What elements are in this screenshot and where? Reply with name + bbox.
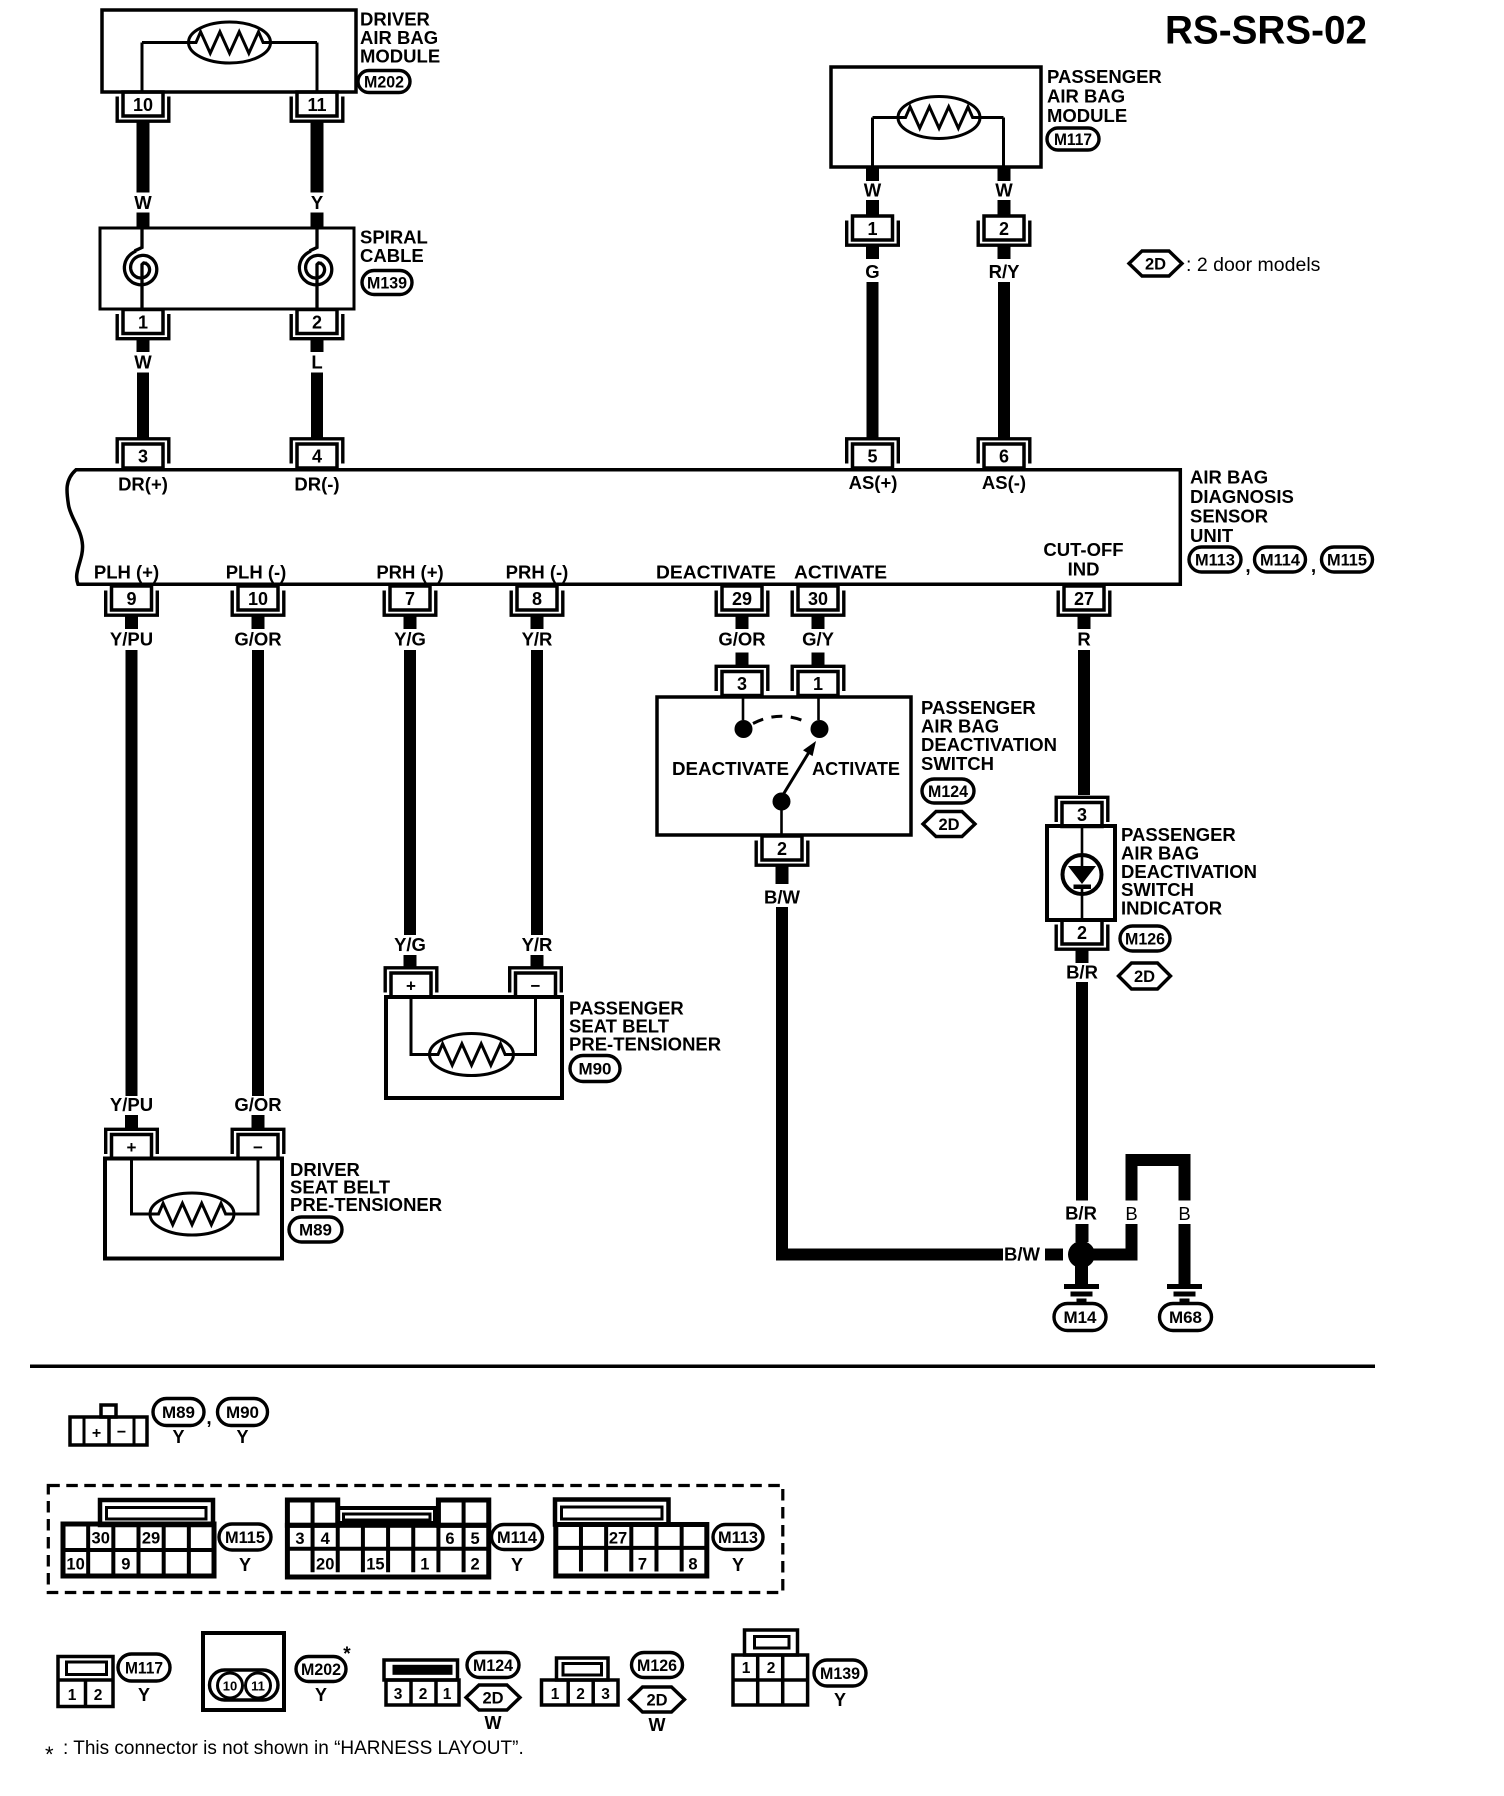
svg-text:7: 7	[405, 589, 415, 609]
svg-text:R/Y: R/Y	[989, 261, 1021, 282]
footnote asterisk	[45, 1742, 54, 1767]
svg-text:+: +	[406, 977, 416, 996]
svg-text:M202: M202	[364, 73, 404, 91]
wire stub below pin (R)	[1078, 615, 1091, 629]
svg-text:2: 2	[312, 313, 322, 333]
sensor pin name PLH (-)	[226, 562, 287, 583]
wire color label W (passenger right)	[995, 180, 1013, 201]
svg-text:B/R: B/R	[1065, 1203, 1097, 1224]
switch dashed travel arc	[753, 716, 809, 723]
svg-text:R: R	[1077, 629, 1090, 650]
connector label M114	[1255, 547, 1306, 572]
switch lever arrow	[784, 741, 817, 794]
svg-text:5: 5	[471, 1530, 480, 1548]
switch contact dot ACTIVATE	[811, 720, 829, 738]
svg-text:10: 10	[66, 1556, 84, 1574]
wire color label Y/R (upper)	[522, 629, 553, 650]
connector pin 1 (M124)	[792, 666, 844, 695]
svg-text:2: 2	[999, 219, 1009, 239]
connector pin 1 (M139 lower)	[117, 310, 169, 339]
squib resistor (passenger pre-tensioner)	[430, 1034, 514, 1076]
wire B/W junction down stub	[1075, 1266, 1088, 1284]
indicator lamp anode lead	[1081, 828, 1084, 866]
wire R/Y run to pin 6	[998, 282, 1010, 440]
connector label M117	[1047, 128, 1099, 150]
svg-text:DEACTIVATE: DEACTIVATE	[672, 758, 789, 779]
svg-text:M90: M90	[579, 1060, 612, 1078]
svg-text:6: 6	[999, 447, 1009, 467]
sensor pin name AS(-)	[982, 472, 1026, 493]
svg-text:6: 6	[445, 1530, 454, 1548]
sensor pin name CUT-OFF IND	[1043, 539, 1123, 580]
indicator label text	[1121, 824, 1257, 919]
connector label M114 (face view)	[492, 1525, 543, 1550]
svg-text:Y: Y	[172, 1427, 184, 1447]
svg-text:M89: M89	[162, 1404, 195, 1422]
wire Y stub into spiral cable	[311, 213, 324, 230]
svg-text:M68: M68	[1169, 1309, 1202, 1327]
sensor pin name DR(+)	[118, 474, 168, 495]
connector label M113	[1189, 547, 1241, 572]
wire stub below pin (Y/PU)	[125, 615, 138, 629]
svg-text:SWITCH: SWITCH	[921, 753, 994, 774]
svg-text:SENSOR: SENSOR	[1190, 506, 1268, 527]
svg-text:3: 3	[1077, 805, 1087, 825]
svg-text:3: 3	[138, 447, 148, 467]
internal lead wires (passenger module)	[873, 118, 1004, 168]
svg-text:1: 1	[443, 1686, 452, 1703]
svg-text:4: 4	[312, 447, 322, 467]
wire color label B (right)	[1178, 1203, 1190, 1224]
wire R/Y stub below pin 2	[998, 245, 1011, 259]
connector pin 9 (sensor bottom)	[106, 586, 158, 615]
wire color label G/OR (upper)	[718, 629, 765, 650]
wire color label G/OR (lower)	[234, 1094, 281, 1115]
svg-text:CUT-OFF: CUT-OFF	[1043, 539, 1123, 560]
svg-text:Y/G: Y/G	[394, 629, 426, 650]
connector label M115 (face view)	[219, 1524, 271, 1550]
svg-text:PASSENGER: PASSENGER	[1047, 66, 1162, 87]
sensor pin name PRH (+)	[376, 562, 443, 583]
svg-text:M115: M115	[1327, 551, 1367, 569]
svg-text:30: 30	[808, 589, 828, 609]
svg-text:Y: Y	[732, 1555, 744, 1575]
driver module label text	[360, 9, 440, 67]
connector face view M202	[203, 1633, 284, 1710]
wire Y/R stub to - connector	[531, 955, 544, 968]
color code Y (M114)	[511, 1555, 523, 1575]
svg-text:1: 1	[68, 1687, 77, 1704]
svg-text:3: 3	[295, 1530, 304, 1548]
svg-text:M113: M113	[1195, 551, 1235, 569]
svg-text:B/R: B/R	[1066, 962, 1098, 983]
svg-text:8: 8	[688, 1556, 697, 1574]
switch contact lead pin3	[742, 697, 745, 720]
svg-text:−: −	[253, 1138, 263, 1157]
condition symbol 2D (indicator)	[1119, 963, 1171, 989]
color code W (M126)	[649, 1715, 666, 1735]
wire B bridge top	[1126, 1154, 1191, 1166]
passenger air bag deactivation switch indicator M126 body	[1047, 826, 1115, 920]
svg-text:M126: M126	[637, 1657, 677, 1675]
svg-text:29: 29	[142, 1530, 160, 1548]
separator line	[30, 1365, 1375, 1369]
condition symbol 2D (M126 face view)	[630, 1687, 685, 1712]
svg-text:1: 1	[138, 313, 148, 333]
svg-text:15: 15	[366, 1556, 384, 1574]
svg-text:MODULE: MODULE	[1047, 105, 1127, 126]
svg-text:PRE-TENSIONER: PRE-TENSIONER	[290, 1194, 442, 1215]
squib resistor (driver pre-tensioner)	[150, 1193, 234, 1235]
svg-text:2: 2	[767, 1660, 776, 1677]
svg-text:: 2 door models: : 2 door models	[1186, 254, 1321, 276]
svg-text:W: W	[485, 1713, 502, 1733]
sensor pin name AS(+)	[849, 472, 898, 493]
wire stub below pin (G/OR)	[252, 615, 265, 629]
svg-text:3: 3	[737, 674, 747, 694]
svg-text:11: 11	[251, 1679, 265, 1694]
wire Y/R run (pin8 to passenger pre-tensioner)	[531, 650, 543, 935]
connector pin 3 (M124)	[716, 666, 768, 695]
sensor pin name ACTIVATE	[794, 562, 887, 583]
svg-text:2: 2	[471, 1556, 480, 1574]
svg-text:1: 1	[420, 1556, 429, 1574]
wire color label W (passenger left)	[864, 180, 882, 201]
svg-text:*: *	[343, 1644, 351, 1665]
svg-text:G: G	[865, 261, 879, 282]
wire B/R stub below pin 2	[1076, 949, 1089, 963]
wire color label G/OR (upper)	[234, 629, 281, 650]
svg-text:Y/R: Y/R	[522, 934, 553, 955]
svg-text:AIR BAG: AIR BAG	[1190, 467, 1268, 488]
wire B/W stub below pin 2	[776, 865, 789, 884]
svg-text:PRE-TENSIONER: PRE-TENSIONER	[569, 1034, 721, 1055]
connector + (M90)	[385, 968, 437, 997]
comma separator 3	[206, 1408, 211, 1429]
connector face view M89/M90 (2-pin)	[70, 1405, 147, 1445]
legend text 2 door models	[1186, 254, 1321, 276]
svg-text:M124: M124	[928, 783, 969, 801]
wire B left leg gap note	[0, 0, 1, 1]
connector + (M89)	[106, 1129, 158, 1158]
connector pin 8 (sensor bottom)	[511, 586, 563, 615]
wire G/OR run (pin10 to driver pre-tensioner)	[252, 650, 264, 1096]
ground label M14	[1054, 1304, 1106, 1331]
asterisk (M202 not in harness layout)	[343, 1644, 351, 1665]
connector face view M139	[733, 1630, 808, 1705]
connector pin 30 (sensor bottom)	[792, 586, 844, 615]
wire Y/PU run (pin9 to driver pre-tensioner)	[126, 650, 138, 1096]
wire color label R (upper)	[1077, 629, 1090, 650]
svg-text:G/OR: G/OR	[234, 629, 281, 650]
sensor pin name DEACTIVATE	[656, 562, 776, 583]
svg-text:9: 9	[126, 589, 136, 609]
wire color label B (left)	[1125, 1203, 1137, 1224]
switch label text	[921, 697, 1057, 774]
connector pin 10 (M202)	[117, 92, 169, 121]
internal leads (passenger pre-tensioner)	[411, 997, 536, 1055]
svg-text:4: 4	[321, 1530, 331, 1548]
svg-text:PRH (+): PRH (+)	[376, 562, 443, 583]
connector - (M90)	[510, 968, 562, 997]
svg-text:: This connector is not shown: : This connector is not shown in “HARNES…	[63, 1738, 524, 1759]
wire color label W (spiral-sensor)	[134, 352, 152, 373]
svg-text:Y/R: Y/R	[522, 629, 553, 650]
svg-text:RS-SRS-02: RS-SRS-02	[1165, 9, 1367, 53]
ground symbol M68	[1167, 1284, 1202, 1304]
wire B left leg lower stub	[1126, 1224, 1138, 1255]
color code Y (M117)	[138, 1685, 150, 1705]
sensor pin name PRH (-)	[506, 562, 569, 583]
connector label M117 (face view)	[118, 1654, 170, 1681]
svg-text:27: 27	[1074, 589, 1094, 609]
connector label M139	[362, 271, 412, 295]
color code Y (M90)	[236, 1427, 248, 1447]
svg-text:9: 9	[121, 1556, 130, 1574]
indicator lamp circle	[1063, 855, 1102, 894]
wire color label Y/G (lower)	[394, 934, 426, 955]
connector pin 2 (M126)	[1056, 920, 1108, 949]
squib resistor (passenger air bag module)	[873, 97, 1004, 139]
svg-text:30: 30	[92, 1530, 110, 1548]
svg-text:W: W	[995, 180, 1013, 201]
connector pin 2 (M124)	[756, 836, 808, 865]
internal lead wires (driver module)	[142, 43, 317, 93]
connector pin 29 (sensor bottom)	[716, 586, 768, 615]
svg-text:Y: Y	[236, 1427, 248, 1447]
svg-text:27: 27	[609, 1530, 627, 1548]
svg-text:,: ,	[1245, 556, 1250, 577]
svg-text:2D: 2D	[1134, 968, 1155, 986]
connector pin 1 (M117)	[847, 216, 899, 245]
svg-text:M114: M114	[497, 1529, 538, 1547]
wire color label W (pin10-spiral)	[134, 192, 152, 213]
wire B/W stub to junction	[1045, 1249, 1063, 1261]
indicator lamp cathode lead	[1081, 889, 1084, 918]
svg-text:DR(-): DR(-)	[294, 474, 339, 495]
wire B/R run down	[1076, 982, 1088, 1201]
wire stub below pin (Y/G)	[404, 615, 417, 629]
switch contact dot DEACTIVATE	[735, 720, 753, 738]
connector label M202	[358, 71, 410, 93]
wire W run to pin 3	[137, 373, 149, 440]
color code W (M124)	[485, 1713, 502, 1733]
svg-text:M202: M202	[301, 1661, 341, 1679]
svg-text:+: +	[127, 1138, 137, 1157]
wire color label Y (pin11-spiral)	[311, 192, 324, 213]
wire color label B/W (at junction)	[1004, 1244, 1041, 1265]
footnote text	[63, 1738, 524, 1759]
svg-text:3: 3	[394, 1686, 403, 1703]
wire from junction to right	[1093, 1249, 1138, 1261]
connector label M89	[289, 1217, 342, 1242]
wire color label B/R (lower)	[1065, 1203, 1097, 1224]
svg-text:G/Y: G/Y	[802, 629, 835, 650]
wire color label B/R (upper)	[1066, 962, 1098, 983]
connector label M139 (face view)	[814, 1660, 866, 1686]
dashed group box (sensor connectors)	[48, 1486, 783, 1593]
svg-text:2: 2	[419, 1686, 428, 1703]
spiral coil symbol left (M139)	[124, 230, 156, 308]
svg-text:W: W	[134, 352, 152, 373]
connector label M89 (face view)	[153, 1399, 204, 1426]
connector pin 7 (sensor bottom)	[384, 586, 436, 615]
svg-text:B/W: B/W	[764, 887, 801, 908]
wire B/W horizontal run	[776, 1249, 1003, 1261]
passenger air bag module M117 body	[831, 67, 1041, 167]
wire W stub below pin 10	[137, 121, 150, 192]
svg-text:M126: M126	[1125, 930, 1165, 948]
svg-text:Y: Y	[239, 1555, 251, 1575]
wire color label G/Y (upper)	[802, 629, 835, 650]
svg-text:Y: Y	[511, 1555, 523, 1575]
connector label M126	[1120, 926, 1170, 951]
connector face view M114	[287, 1500, 488, 1577]
connector pin 5 (sensor unit top)	[847, 439, 899, 468]
connector pin 3 (sensor unit top)	[117, 439, 169, 468]
svg-text:M117: M117	[125, 1659, 163, 1677]
connector - (M89)	[232, 1129, 284, 1158]
indicator lamp cathode bar	[1074, 885, 1092, 890]
wire color label L (spiral-sensor)	[311, 352, 322, 373]
comma separator 1	[1245, 556, 1250, 577]
svg-text:AIR BAG: AIR BAG	[1047, 85, 1125, 106]
color code Y (M89)	[172, 1427, 184, 1447]
svg-text:1: 1	[813, 674, 823, 694]
svg-text:10: 10	[133, 95, 153, 115]
svg-text:B: B	[1178, 1203, 1190, 1224]
svg-text:20: 20	[316, 1556, 334, 1574]
wire G run to pin 5	[867, 282, 879, 440]
comma separator 2	[1311, 556, 1316, 577]
wire stub below pin (G/OR)	[736, 615, 749, 629]
air bag diagnosis sensor unit body (M113/M114/M115)	[67, 470, 1180, 585]
svg-text:M113: M113	[718, 1529, 758, 1547]
svg-text:1: 1	[867, 219, 877, 239]
svg-text:M124: M124	[473, 1657, 514, 1675]
svg-text:M117: M117	[1054, 131, 1092, 149]
wire G/OR stub to - connector	[252, 1115, 265, 1129]
switch common contact dot	[773, 793, 791, 811]
wire stub below pin (G/Y)	[812, 615, 825, 629]
svg-text:DIAGNOSIS: DIAGNOSIS	[1190, 486, 1294, 507]
connector pin 10 (sensor bottom)	[232, 586, 284, 615]
wire color label Y/R (lower)	[522, 934, 553, 955]
connector pin 11 (M202)	[291, 92, 343, 121]
svg-text:+: +	[92, 1425, 101, 1442]
svg-text:10: 10	[223, 1679, 237, 1694]
svg-text:W: W	[649, 1715, 666, 1735]
svg-text:W: W	[134, 192, 152, 213]
connector pin 27 (sensor bottom)	[1058, 586, 1110, 615]
wire Y stub below pin 11	[311, 121, 324, 192]
color code Y (M139)	[834, 1690, 846, 1710]
wire B right leg lower	[1179, 1224, 1191, 1284]
svg-text:DR(+): DR(+)	[118, 474, 168, 495]
svg-text:Y/PU: Y/PU	[110, 629, 153, 650]
svg-text:2: 2	[576, 1686, 585, 1703]
wire L run to pin 4	[311, 373, 323, 440]
condition symbol 2D (switch)	[923, 812, 975, 837]
svg-text:INDICATOR: INDICATOR	[1121, 898, 1222, 919]
wire B left leg up	[1126, 1166, 1138, 1201]
svg-text:*: *	[45, 1742, 54, 1767]
svg-text:2D: 2D	[1145, 255, 1166, 273]
svg-text:2: 2	[1077, 923, 1087, 943]
connector label M124 (face view)	[467, 1653, 519, 1678]
wire W stub below passenger module right	[998, 167, 1011, 181]
svg-text:PLH (+): PLH (+)	[94, 562, 159, 583]
svg-text:B/W: B/W	[1004, 1244, 1041, 1265]
svg-text:W: W	[864, 180, 882, 201]
wire color label R/Y	[989, 261, 1021, 282]
svg-text:Y/PU: Y/PU	[110, 1094, 153, 1115]
connector label M115	[1322, 547, 1373, 572]
passenger pre-tensioner label text	[569, 998, 721, 1055]
svg-text:11: 11	[307, 95, 326, 115]
wire W stub above pin 1	[866, 200, 879, 217]
svg-text:8: 8	[532, 589, 542, 609]
svg-text:B: B	[1125, 1203, 1137, 1224]
wire Y/G stub to + connector	[404, 955, 417, 968]
svg-text:AS(-): AS(-)	[982, 472, 1026, 493]
svg-text:29: 29	[732, 589, 752, 609]
svg-text:ACTIVATE: ACTIVATE	[812, 758, 900, 779]
svg-text:L: L	[311, 352, 322, 373]
svg-text:M14: M14	[1064, 1309, 1098, 1327]
wire color label Y/PU (lower)	[110, 1094, 153, 1115]
diagram title RS-SRS-02	[1165, 9, 1367, 53]
spiral cable label text	[360, 227, 428, 267]
wire B/W vertical run	[776, 907, 788, 1249]
driver seat belt pre-tensioner M89 body	[105, 1159, 282, 1259]
switch position text ACTIVATE	[812, 758, 900, 779]
junction dot (B/W-B/R-B ground node)	[1068, 1241, 1095, 1268]
wire color label B/W (switch)	[764, 887, 801, 908]
svg-text:CABLE: CABLE	[360, 245, 424, 266]
svg-text:1: 1	[551, 1686, 560, 1703]
connector face view M124	[384, 1660, 459, 1705]
legend symbol 2D hexagon	[1129, 251, 1182, 276]
connector label M202 (face view)	[296, 1657, 346, 1682]
connector label M113 (face view)	[713, 1525, 763, 1550]
driver air bag module M202 body	[102, 10, 356, 92]
connector label M126 (face view)	[632, 1653, 683, 1678]
sensor unit label text	[1190, 467, 1294, 547]
connector face view M117	[58, 1657, 113, 1707]
svg-text:PLH (-): PLH (-)	[226, 562, 287, 583]
passenger seat belt pre-tensioner M90 body	[386, 997, 562, 1098]
svg-text:G/OR: G/OR	[234, 1094, 281, 1115]
wire color label G	[865, 261, 879, 282]
switch contact lead pin1	[817, 697, 820, 720]
squib resistor (driver air bag module)	[142, 22, 317, 63]
connector label M90	[570, 1056, 620, 1082]
svg-text:PRH (-): PRH (-)	[506, 562, 569, 583]
color code Y (M115)	[239, 1555, 251, 1575]
svg-text:2D: 2D	[482, 1689, 503, 1707]
switch common lead to pin 2	[780, 809, 783, 835]
svg-text:2: 2	[777, 839, 787, 859]
color code Y (M202)	[315, 1685, 327, 1705]
wire Y/PU stub to + connector	[125, 1115, 138, 1129]
driver pre-tensioner label text	[290, 1159, 442, 1215]
sensor pin name PLH (+)	[94, 562, 159, 583]
svg-text:MODULE: MODULE	[360, 46, 440, 67]
svg-text:−: −	[531, 977, 541, 996]
svg-text:M90: M90	[226, 1404, 259, 1422]
svg-text:Y: Y	[315, 1685, 327, 1705]
